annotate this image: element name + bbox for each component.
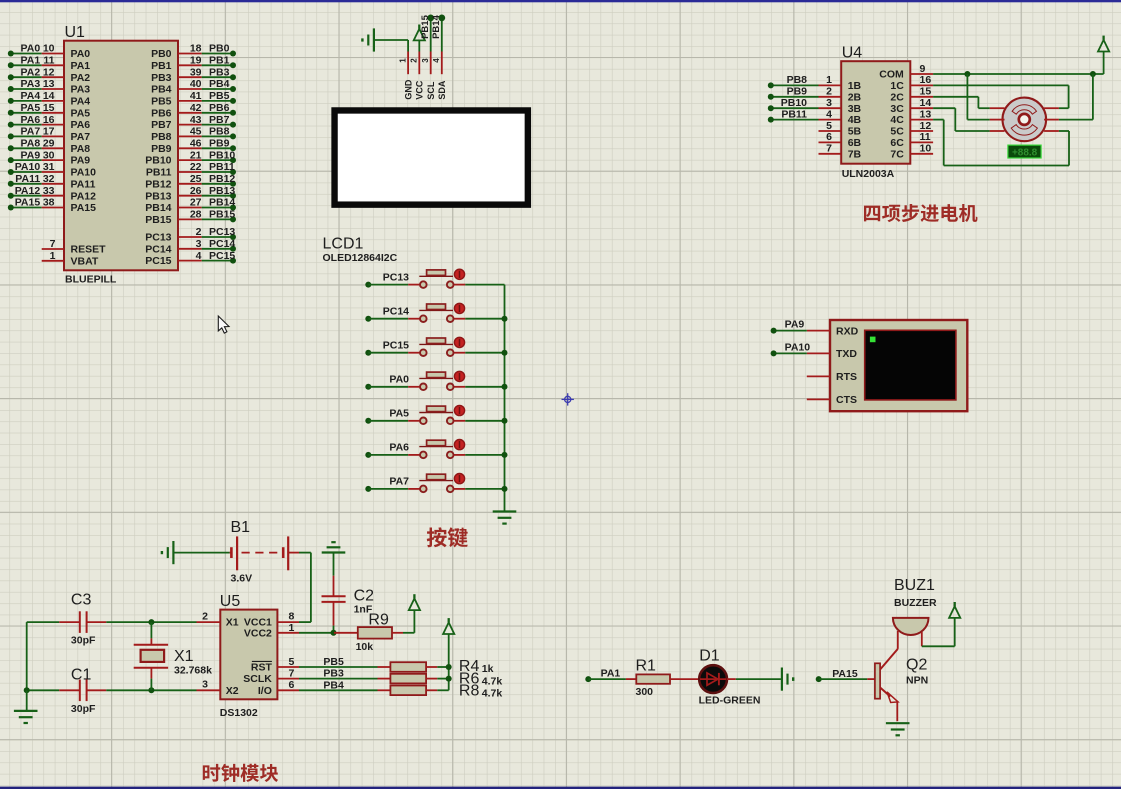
svg-text:4.7k: 4.7k xyxy=(482,688,503,700)
svg-text:PA10: PA10 xyxy=(785,341,811,353)
svg-text:PB3: PB3 xyxy=(209,66,230,78)
svg-text:PA0: PA0 xyxy=(21,43,41,55)
svg-text:PB15: PB15 xyxy=(420,14,431,38)
svg-text:PB12: PB12 xyxy=(145,178,171,190)
svg-text:PB10: PB10 xyxy=(145,155,171,167)
svg-text:PB8: PB8 xyxy=(787,74,808,86)
svg-text:X1: X1 xyxy=(226,617,239,629)
svg-text:18: 18 xyxy=(190,43,202,55)
svg-text:1: 1 xyxy=(399,58,408,63)
svg-text:PB13: PB13 xyxy=(145,190,171,202)
svg-text:PA5: PA5 xyxy=(71,107,91,119)
svg-text:PC14: PC14 xyxy=(383,306,409,318)
svg-text:3: 3 xyxy=(202,678,208,690)
svg-text:PA8: PA8 xyxy=(71,143,91,155)
svg-text:PA10: PA10 xyxy=(71,167,97,179)
svg-text:R1: R1 xyxy=(636,658,657,675)
svg-text:PB6: PB6 xyxy=(151,107,172,119)
svg-text:1B: 1B xyxy=(848,80,862,92)
svg-text:11: 11 xyxy=(43,55,54,67)
svg-text:PB13: PB13 xyxy=(209,185,235,197)
svg-text:PA12: PA12 xyxy=(71,190,97,202)
svg-text:PA1: PA1 xyxy=(601,667,621,679)
svg-text:I/O: I/O xyxy=(258,685,272,697)
svg-text:PC13: PC13 xyxy=(145,232,171,244)
svg-text:R8: R8 xyxy=(459,683,480,700)
svg-text:28: 28 xyxy=(190,209,202,221)
svg-text:PA2: PA2 xyxy=(71,72,91,84)
svg-text:PA1: PA1 xyxy=(71,60,91,72)
svg-text:R9: R9 xyxy=(368,611,389,628)
svg-text:8: 8 xyxy=(289,610,295,622)
svg-text:6B: 6B xyxy=(848,137,862,149)
svg-text:1k: 1k xyxy=(482,663,494,675)
svg-text:PB7: PB7 xyxy=(209,114,230,126)
svg-text:X2: X2 xyxy=(226,685,239,697)
svg-text:PB10: PB10 xyxy=(209,149,235,161)
svg-text:PA1: PA1 xyxy=(21,55,41,67)
svg-text:4: 4 xyxy=(826,108,832,120)
svg-text:PB15: PB15 xyxy=(209,209,235,221)
svg-text:VCC2: VCC2 xyxy=(244,627,272,639)
svg-text:PB8: PB8 xyxy=(209,126,230,138)
svg-text:7: 7 xyxy=(289,667,295,679)
svg-text:PA9: PA9 xyxy=(785,319,805,331)
svg-text:46: 46 xyxy=(190,138,202,150)
svg-text:3C: 3C xyxy=(890,103,904,115)
svg-text:PB12: PB12 xyxy=(209,173,235,185)
svg-text:PA15: PA15 xyxy=(15,197,41,209)
svg-text:PB11: PB11 xyxy=(781,108,807,120)
svg-text:41: 41 xyxy=(190,90,202,102)
svg-text:DS1302: DS1302 xyxy=(220,707,258,719)
svg-text:300: 300 xyxy=(636,686,654,698)
svg-text:21: 21 xyxy=(190,149,202,161)
svg-text:COM: COM xyxy=(879,69,904,81)
svg-text:4.7k: 4.7k xyxy=(482,675,503,687)
svg-text:32.768k: 32.768k xyxy=(174,665,212,677)
svg-text:X1: X1 xyxy=(174,648,194,665)
svg-text:PB0: PB0 xyxy=(151,48,172,60)
svg-text:5C: 5C xyxy=(890,126,904,138)
svg-text:4B: 4B xyxy=(848,114,862,126)
svg-text:OLED12864I2C: OLED12864I2C xyxy=(323,252,398,264)
svg-text:15: 15 xyxy=(43,102,55,114)
svg-text:3.6V: 3.6V xyxy=(231,573,253,585)
svg-text:13: 13 xyxy=(920,108,932,120)
svg-text:PA6: PA6 xyxy=(21,114,41,126)
svg-text:RTS: RTS xyxy=(836,371,857,383)
svg-text:Q2: Q2 xyxy=(906,657,927,674)
svg-text:11: 11 xyxy=(920,131,931,143)
svg-text:10: 10 xyxy=(43,43,55,55)
svg-text:PB3: PB3 xyxy=(151,72,172,84)
svg-text:PA5: PA5 xyxy=(21,102,41,114)
svg-text:PB7: PB7 xyxy=(151,119,172,131)
svg-text:6C: 6C xyxy=(890,137,904,149)
svg-text:PC13: PC13 xyxy=(383,271,409,283)
svg-text:45: 45 xyxy=(190,126,202,138)
svg-text:VCC: VCC xyxy=(415,80,425,100)
svg-text:PA11: PA11 xyxy=(71,178,96,190)
svg-text:PA12: PA12 xyxy=(15,185,41,197)
svg-text:B1: B1 xyxy=(231,519,251,536)
svg-text:PB15: PB15 xyxy=(145,214,171,226)
svg-text:PA6: PA6 xyxy=(71,119,91,131)
svg-text:PB5: PB5 xyxy=(151,96,172,108)
svg-text:32: 32 xyxy=(43,173,55,185)
svg-text:PB5: PB5 xyxy=(209,90,230,102)
svg-text:25: 25 xyxy=(190,173,202,185)
svg-text:PA11: PA11 xyxy=(15,173,40,185)
svg-text:RXD: RXD xyxy=(836,325,859,337)
svg-text:TXD: TXD xyxy=(836,348,857,360)
svg-text:3: 3 xyxy=(826,97,832,109)
svg-text:PC14: PC14 xyxy=(145,243,171,255)
svg-text:PB9: PB9 xyxy=(151,143,172,155)
svg-text:12: 12 xyxy=(920,120,932,132)
svg-text:17: 17 xyxy=(43,126,55,138)
svg-text:2B: 2B xyxy=(848,91,862,103)
svg-text:3: 3 xyxy=(196,238,202,250)
svg-text:U1: U1 xyxy=(65,24,86,41)
svg-text:2: 2 xyxy=(196,226,202,238)
svg-text:29: 29 xyxy=(43,138,55,150)
svg-text:PA10: PA10 xyxy=(15,161,41,173)
svg-text:PA0: PA0 xyxy=(71,48,91,60)
svg-text:PA3: PA3 xyxy=(21,78,41,90)
svg-text:12: 12 xyxy=(43,66,55,78)
svg-text:D1: D1 xyxy=(699,648,720,665)
svg-text:PA4: PA4 xyxy=(21,90,41,102)
svg-text:SDA: SDA xyxy=(437,80,447,100)
svg-text:PB14: PB14 xyxy=(431,14,442,38)
svg-text:2: 2 xyxy=(826,86,832,98)
svg-text:26: 26 xyxy=(190,185,202,197)
svg-text:16: 16 xyxy=(43,114,55,126)
svg-text:4: 4 xyxy=(432,58,441,63)
svg-text:BUZ1: BUZ1 xyxy=(894,577,935,594)
svg-text:PC15: PC15 xyxy=(145,255,171,267)
svg-text:PA0: PA0 xyxy=(389,374,409,386)
svg-text:PC15: PC15 xyxy=(383,340,409,352)
svg-text:7B: 7B xyxy=(848,148,862,160)
svg-text:C1: C1 xyxy=(71,667,92,684)
svg-text:PB4: PB4 xyxy=(209,78,230,90)
svg-text:2C: 2C xyxy=(890,91,904,103)
svg-text:6: 6 xyxy=(826,131,832,143)
svg-text:BLUEPILL: BLUEPILL xyxy=(65,273,117,285)
svg-text:PB3: PB3 xyxy=(323,668,344,680)
svg-text:13: 13 xyxy=(43,78,55,90)
svg-text:PB10: PB10 xyxy=(781,97,807,109)
svg-text:1: 1 xyxy=(826,74,832,86)
svg-text:PB14: PB14 xyxy=(209,197,235,209)
svg-text:3: 3 xyxy=(421,58,430,63)
svg-text:39: 39 xyxy=(190,66,202,78)
svg-text:10: 10 xyxy=(920,143,932,155)
svg-text:27: 27 xyxy=(190,197,202,209)
svg-text:U4: U4 xyxy=(842,45,863,62)
svg-text:42: 42 xyxy=(190,102,202,114)
svg-text:PB6: PB6 xyxy=(209,102,230,114)
svg-text:PB0: PB0 xyxy=(209,43,230,55)
svg-text:14: 14 xyxy=(920,97,932,109)
svg-text:LCD1: LCD1 xyxy=(323,236,364,253)
svg-text:PB9: PB9 xyxy=(787,86,808,98)
svg-text:PA15: PA15 xyxy=(71,202,97,214)
svg-text:PA4: PA4 xyxy=(71,96,91,108)
svg-text:9: 9 xyxy=(920,63,926,75)
svg-text:PA9: PA9 xyxy=(21,149,41,161)
svg-text:2: 2 xyxy=(410,58,419,63)
svg-text:PA2: PA2 xyxy=(21,66,41,78)
svg-text:2: 2 xyxy=(202,610,208,622)
svg-text:14: 14 xyxy=(43,90,55,102)
svg-text:PB1: PB1 xyxy=(151,60,172,72)
svg-text:10k: 10k xyxy=(356,641,374,653)
svg-text:PA5: PA5 xyxy=(389,408,409,420)
svg-text:7: 7 xyxy=(826,143,832,155)
svg-text:PB11: PB11 xyxy=(209,161,235,173)
svg-text:U5: U5 xyxy=(220,593,241,610)
svg-text:5B: 5B xyxy=(848,126,862,138)
svg-text:BUZZER: BUZZER xyxy=(894,597,937,609)
svg-text:PA6: PA6 xyxy=(389,442,409,454)
svg-text:PA7: PA7 xyxy=(21,126,41,138)
svg-text:LED-GREEN: LED-GREEN xyxy=(699,695,761,707)
svg-text:SCL: SCL xyxy=(426,81,436,100)
svg-text:ULN2003A: ULN2003A xyxy=(842,168,895,180)
svg-text:7C: 7C xyxy=(890,148,904,160)
svg-text:SCLK: SCLK xyxy=(243,673,272,685)
svg-text:PA9: PA9 xyxy=(71,155,91,167)
svg-text:PB4: PB4 xyxy=(323,679,344,691)
svg-text:PB1: PB1 xyxy=(209,55,230,67)
svg-text:40: 40 xyxy=(190,78,202,90)
svg-text:PB11: PB11 xyxy=(146,167,172,179)
svg-text:C3: C3 xyxy=(71,592,92,609)
svg-text:7: 7 xyxy=(50,238,56,250)
svg-text:GND: GND xyxy=(403,79,413,100)
svg-text:4: 4 xyxy=(196,250,202,262)
svg-text:3B: 3B xyxy=(848,103,862,115)
svg-text:PA7: PA7 xyxy=(71,131,91,143)
svg-text:22: 22 xyxy=(190,161,202,173)
svg-text:16: 16 xyxy=(920,74,932,86)
svg-text:CTS: CTS xyxy=(836,394,857,406)
svg-text:PC14: PC14 xyxy=(209,238,235,250)
svg-text:33: 33 xyxy=(43,185,55,197)
svg-text:PA7: PA7 xyxy=(389,476,409,488)
svg-text:19: 19 xyxy=(190,55,202,67)
svg-text:30: 30 xyxy=(43,149,55,161)
svg-text:PB8: PB8 xyxy=(151,131,172,143)
svg-text:RESET: RESET xyxy=(71,244,107,256)
svg-text:+88.8: +88.8 xyxy=(1012,148,1038,159)
svg-text:PB14: PB14 xyxy=(145,202,171,214)
svg-text:1: 1 xyxy=(50,250,56,262)
svg-text:PB9: PB9 xyxy=(209,138,230,150)
svg-text:PA8: PA8 xyxy=(21,138,41,150)
svg-text:VBAT: VBAT xyxy=(71,255,99,267)
svg-text:PA3: PA3 xyxy=(71,84,91,96)
svg-text:30pF: 30pF xyxy=(71,634,96,646)
svg-text:PC15: PC15 xyxy=(209,250,235,262)
svg-text:30pF: 30pF xyxy=(71,703,96,715)
svg-text:1C: 1C xyxy=(890,80,904,92)
svg-text:PB5: PB5 xyxy=(323,656,344,668)
svg-text:43: 43 xyxy=(190,114,202,126)
svg-text:5: 5 xyxy=(826,120,832,132)
svg-text:4C: 4C xyxy=(890,114,904,126)
svg-text:RST: RST xyxy=(251,662,273,674)
svg-text:PC13: PC13 xyxy=(209,226,235,238)
svg-text:15: 15 xyxy=(920,86,932,98)
svg-text:PB4: PB4 xyxy=(151,84,172,96)
svg-text:C2: C2 xyxy=(354,588,375,605)
svg-text:NPN: NPN xyxy=(906,675,928,687)
svg-text:38: 38 xyxy=(43,197,55,209)
svg-text:31: 31 xyxy=(43,161,55,173)
